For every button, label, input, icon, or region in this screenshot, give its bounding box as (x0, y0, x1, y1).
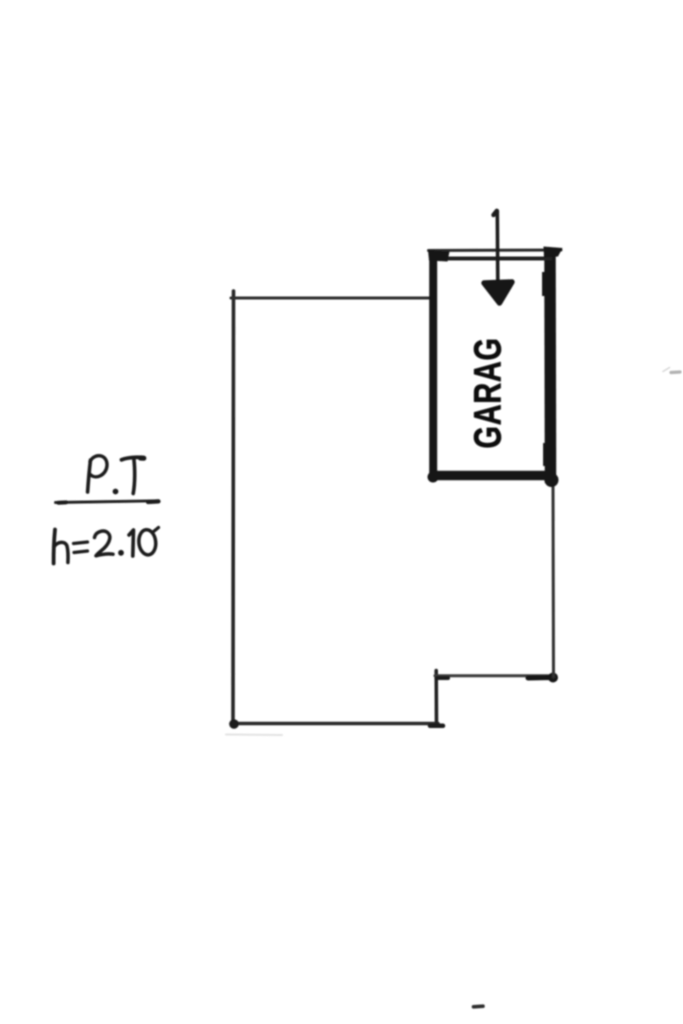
label dot of 2.10 (118, 550, 124, 556)
label 2 of 2.10 (95, 531, 114, 556)
wire underline left thick end (59, 500, 67, 504)
garage right wall inner bump lower (543, 443, 545, 466)
label equals sign (74, 542, 88, 544)
garage right wall thick (544, 250, 556, 483)
wire underline right thick end (148, 499, 159, 504)
wire underline of P.T (56, 501, 159, 503)
arrow stem start blob (494, 211, 497, 215)
label 0 of 2.10 (138, 529, 157, 556)
wire main outline right wall (552, 482, 556, 677)
wire step horizontal wall (435, 674, 552, 677)
garage bottom-right corner blob (545, 473, 559, 487)
garage right wall inner bump upper (542, 272, 546, 296)
arrow stem (495, 211, 499, 282)
garage top-right corner blob (544, 247, 563, 258)
wire main outline left wall (231, 291, 235, 724)
wire main outline bottom wall (231, 722, 438, 726)
svg-text:GARAG: GARAG (467, 337, 510, 448)
node bottom-right corner blob (548, 673, 558, 683)
garage left wall thick (429, 252, 437, 477)
arrow head (484, 282, 512, 303)
node step bottom blob (430, 724, 443, 729)
garage bottom wall thick (430, 471, 555, 481)
label 1 of 2.10 (129, 530, 134, 556)
node small dash bottom of page (474, 1004, 484, 1008)
label T of P.T (122, 457, 144, 459)
garage top inner line (431, 257, 552, 261)
node faint smudge right edge (663, 368, 670, 372)
label P of P.T (88, 460, 91, 492)
wire main outline top wall (231, 297, 430, 300)
garage bottom-left corner blob (428, 472, 439, 483)
label h of h=2.10 (54, 530, 55, 564)
node faint shadow under bottom wall (226, 734, 282, 737)
node bottom-left corner blob (229, 719, 239, 729)
wire step vertical wall (434, 671, 438, 727)
label dot of P.T (113, 489, 119, 495)
wire step horizontal darker segment near corner (437, 676, 448, 680)
label 0 top-right tick (153, 528, 159, 533)
garage top-left corner blob (428, 250, 450, 262)
wire step horizontal darker right segment (528, 675, 553, 681)
garage top outer thin line (429, 249, 562, 253)
